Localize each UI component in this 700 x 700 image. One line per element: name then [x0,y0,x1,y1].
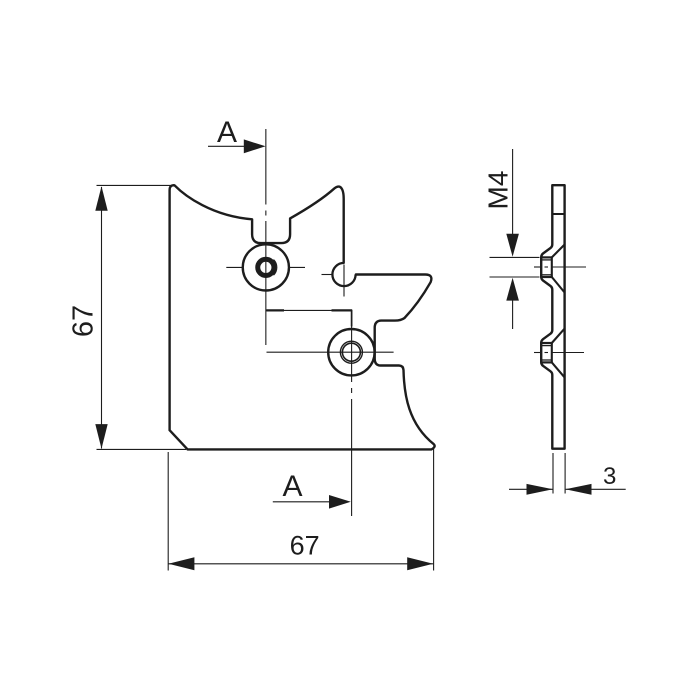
bottom hole thread outer circle [340,341,362,363]
side view silhouette [541,185,564,449]
boss circle of bottom hole [328,329,374,375]
section line vertical through top hole (dash-dot) [265,129,267,345]
bottom hole inner circle [342,343,360,361]
side view upper hole centerline [534,266,586,268]
svg-text:M4: M4 [483,171,514,210]
bottom dim arrow left [168,557,194,570]
section arrow top [208,145,248,147]
corner hole horizontal centerline tick [322,274,334,276]
lower hole thread lines thin [541,345,553,347]
upper hole thread lines thin [541,259,553,261]
svg-text:A: A [282,470,302,503]
side view top edge tick [552,213,564,215]
upper joggle inner diagonal bottom [552,277,565,293]
svg-text:67: 67 [68,305,100,337]
svg-text:67: 67 [290,531,320,561]
lower hole thread lines thick [540,342,552,344]
plate outline (front view) [170,185,435,449]
thickness 3 arrow left-pointing [565,484,591,495]
thickness 3 dim line right [566,488,626,490]
section line vertical through bottom hole (dash-dot) [351,310,353,516]
left dimension 67 line [101,187,103,449]
top hole thread major arc [274,260,277,276]
upper joggle inner diagonal top [552,245,565,258]
svg-text:A: A [217,116,237,149]
M4 arrow up [506,278,519,301]
thickness 3 dim line left [509,488,553,490]
thickness 3 arrow right-pointing [527,484,553,495]
lower joggle inner diagonal bottom [552,362,565,377]
svg-text:3: 3 [603,463,616,490]
bottom dimension 67 line [168,563,433,565]
bottom hole horizontal centerline [267,351,394,353]
left dim arrow up [95,186,107,211]
left dimension 67 extension lines [97,184,172,186]
boss circle of top hole [243,244,289,290]
side view lower hole centerline [534,352,584,354]
bottom dimension 67 extension lines [167,452,169,571]
lower joggle inner diagonal top [552,329,565,343]
top hole horizontal centerline [226,266,243,268]
lower joggle inner edge [551,343,553,362]
corner hole vertical centerline [343,265,345,297]
upper hole thread lines thick [540,256,552,258]
section arrow bottom [273,501,331,503]
top hole M4 thread ring [258,259,274,275]
thickness 3 extension lines [552,453,554,494]
M4 leader line upper [512,149,514,236]
bottom dim arrow right [407,557,433,570]
section jog line [266,309,284,311]
M4 arrow down [506,234,519,257]
upper joggle inner edge [551,257,553,277]
M4 extension lines [490,256,540,258]
corner hole (edge circle) [332,263,355,286]
left dim arrow down [95,424,107,449]
M4 leader line lower [512,299,514,329]
